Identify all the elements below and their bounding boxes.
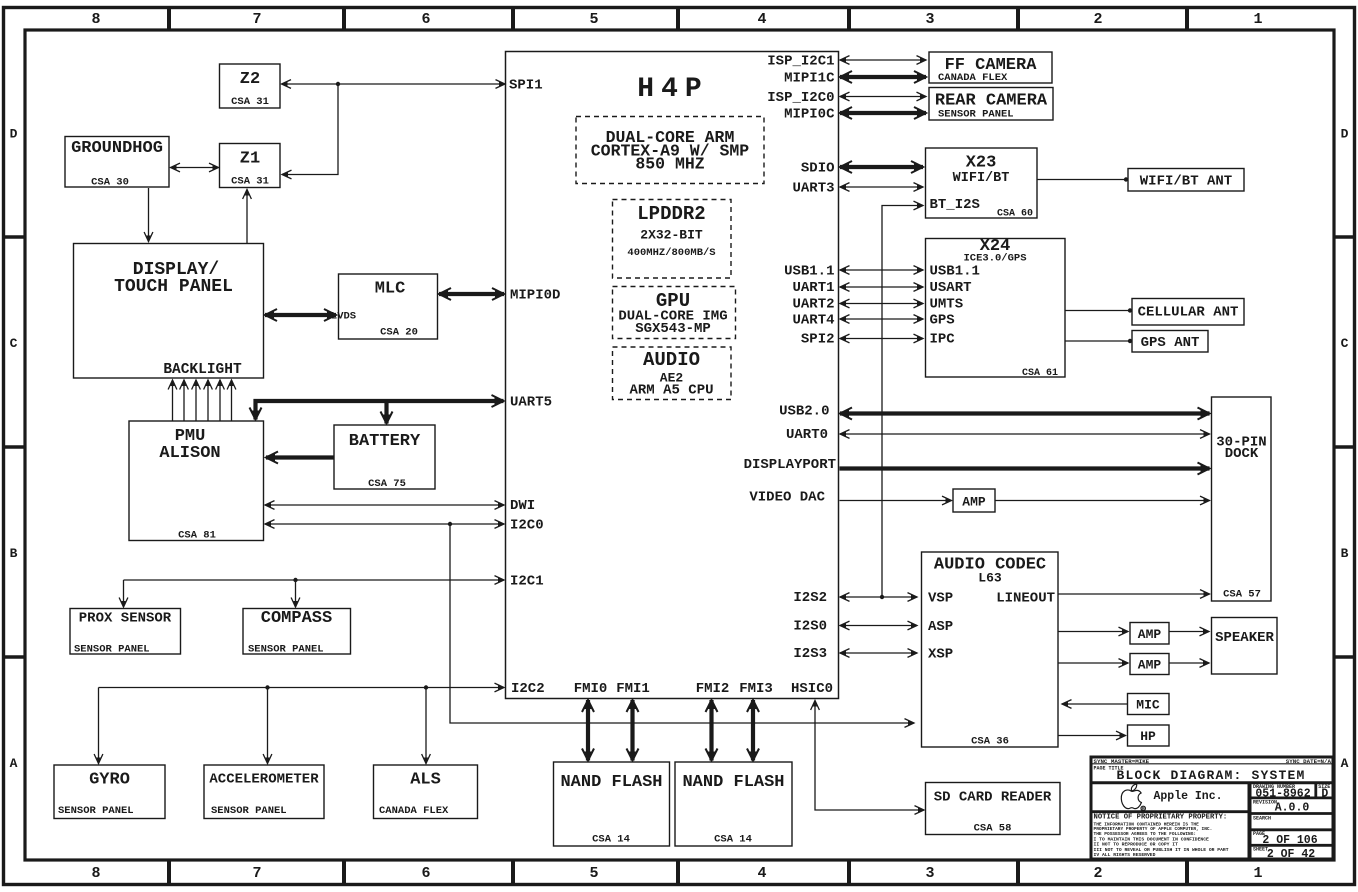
svg-text:Z2: Z2 bbox=[240, 70, 260, 89]
block GYRO bbox=[54, 765, 165, 819]
wire I2S2-VSP bbox=[840, 596, 917, 598]
svg-text:ACCELEROMETER: ACCELEROMETER bbox=[209, 772, 319, 788]
svg-text:DOCK: DOCK bbox=[1225, 446, 1259, 462]
block AMP video bbox=[953, 489, 995, 512]
title block page cell bbox=[1250, 844, 1335, 847]
block 30-PIN DOCK bbox=[1212, 397, 1272, 601]
wire X24 to GPS ANT bbox=[1066, 340, 1133, 342]
svg-text:A: A bbox=[1341, 756, 1349, 771]
svg-text:5: 5 bbox=[589, 865, 598, 882]
svg-text:1: 1 bbox=[1253, 865, 1262, 882]
svg-text:SEARCH: SEARCH bbox=[1253, 816, 1271, 822]
wire MIC to CODEC bbox=[1062, 703, 1127, 705]
svg-text:CSA 58: CSA 58 bbox=[974, 823, 1012, 835]
svg-text:GROUNDHOG: GROUNDHOG bbox=[71, 139, 163, 158]
svg-text:2: 2 bbox=[1093, 865, 1102, 882]
svg-text:USART: USART bbox=[930, 280, 972, 296]
svg-text:SPI2: SPI2 bbox=[801, 332, 835, 348]
wire ISP_I2C1 bbox=[840, 59, 926, 61]
wire UART4-GPS bbox=[840, 318, 923, 320]
svg-text:X23: X23 bbox=[966, 154, 997, 173]
wire DISPLAYPORT (thick) bbox=[840, 466, 1210, 470]
svg-text:FMI1: FMI1 bbox=[616, 681, 650, 697]
svg-text:CANADA FLEX: CANADA FLEX bbox=[379, 805, 449, 817]
block MLC bbox=[339, 274, 438, 339]
wire FMI1 (thick) bbox=[630, 700, 634, 761]
block COMPASS bbox=[243, 609, 351, 655]
wire X24 to CELLULAR ANT bbox=[1066, 310, 1133, 312]
svg-text:R: R bbox=[1142, 806, 1145, 812]
svg-text:CELLULAR ANT: CELLULAR ANT bbox=[1138, 305, 1239, 321]
wire AMP1 to SPEAKER bbox=[1170, 631, 1210, 633]
wire I2C0 branch to AUDIO CODEC bbox=[450, 524, 914, 723]
svg-text:UART1: UART1 bbox=[792, 280, 834, 296]
wire SPI1 to Z2 bbox=[282, 83, 506, 85]
wire BATTERY to PMU (thick) bbox=[266, 455, 334, 459]
wire UART5 (thick) bbox=[256, 401, 504, 420]
svg-text:ALS: ALS bbox=[410, 771, 441, 790]
wire UART5 branch to BATTERY (thick) bbox=[384, 401, 388, 424]
svg-text:C: C bbox=[1341, 336, 1349, 351]
wire GROUNDHOG to DISPLAY bbox=[148, 188, 150, 242]
svg-text:ISP_I2C0: ISP_I2C0 bbox=[767, 90, 834, 106]
svg-text:II NOT TO REPRODUCE OR COPY IT: II NOT TO REPRODUCE OR COPY IT bbox=[1094, 842, 1179, 848]
svg-text:COMPASS: COMPASS bbox=[261, 609, 332, 628]
svg-text:MIPI0D: MIPI0D bbox=[510, 288, 560, 304]
svg-text:I2S3: I2S3 bbox=[793, 646, 827, 662]
junction I2C1/COMPASS bbox=[293, 578, 297, 582]
svg-text:BLOCK DIAGRAM: SYSTEM: BLOCK DIAGRAM: SYSTEM bbox=[1116, 768, 1305, 783]
svg-text:MIPI1C: MIPI1C bbox=[784, 71, 835, 87]
svg-text:CSA 30: CSA 30 bbox=[91, 177, 129, 189]
block SD CARD READER bbox=[926, 783, 1061, 835]
svg-text:ASP: ASP bbox=[928, 619, 953, 635]
block NAND FLASH 2 bbox=[675, 762, 792, 846]
svg-text:L63: L63 bbox=[978, 571, 1002, 586]
svg-text:PROX SENSOR: PROX SENSOR bbox=[79, 611, 172, 627]
svg-text:CSA 36: CSA 36 bbox=[971, 736, 1009, 748]
block MIC bbox=[1128, 694, 1170, 715]
svg-text:UMTS: UMTS bbox=[930, 297, 964, 313]
svg-text:UART2: UART2 bbox=[792, 297, 834, 313]
block REAR CAMERA bbox=[929, 88, 1053, 121]
svg-text:SPEAKER: SPEAKER bbox=[1215, 630, 1274, 646]
wire DISPLAY to Z1 bbox=[246, 190, 248, 244]
wire LINEOUT to DOCK bbox=[1059, 593, 1210, 595]
block GROUNDHOG bbox=[65, 137, 169, 188]
svg-text:VIDEO DAC: VIDEO DAC bbox=[749, 490, 825, 506]
svg-text:7: 7 bbox=[252, 865, 261, 882]
wire GROUNDHOG-Z1 bbox=[171, 167, 219, 169]
svg-text:LINEOUT: LINEOUT bbox=[996, 591, 1055, 607]
svg-text:NAND FLASH: NAND FLASH bbox=[682, 773, 784, 792]
svg-text:AUDIO: AUDIO bbox=[643, 349, 700, 371]
block Z1 bbox=[220, 144, 281, 188]
border row tick marks bbox=[2, 235, 26, 238]
junction SPI1/Z1 bbox=[336, 82, 340, 86]
svg-text:ALISON: ALISON bbox=[159, 444, 220, 463]
junction WIFI/BT ANT bbox=[1124, 177, 1128, 181]
wire SDIO (thick) bbox=[840, 165, 923, 169]
svg-text:SYNC DATE=N/A: SYNC DATE=N/A bbox=[1286, 758, 1332, 765]
svg-text:3: 3 bbox=[925, 11, 934, 28]
wire DISPLAY-MLC LVDS (thick) bbox=[265, 313, 336, 317]
block AMP speaker 2 bbox=[1130, 654, 1169, 675]
svg-text:I2S0: I2S0 bbox=[793, 619, 827, 635]
svg-text:I2S2: I2S2 bbox=[793, 590, 827, 606]
svg-text:I2C2: I2C2 bbox=[511, 681, 545, 697]
wire USB1.1 bbox=[840, 269, 923, 271]
svg-text:IV ALL RIGHTS RESERVED: IV ALL RIGHTS RESERVED bbox=[1094, 852, 1156, 858]
wire AMP2 to SPEAKER bbox=[1170, 662, 1210, 664]
wire CODEC to AMP1 bbox=[1059, 631, 1129, 633]
svg-text:THE POSSESSOR AGREES TO THE FO: THE POSSESSOR AGREES TO THE FOLLOWING: bbox=[1094, 831, 1197, 837]
svg-text:I TO MAINTAIN THIS DOCUMENT IN: I TO MAINTAIN THIS DOCUMENT IN CONFIDENC… bbox=[1094, 837, 1210, 843]
svg-text:6: 6 bbox=[421, 865, 430, 882]
svg-text:WIFI/BT ANT: WIFI/BT ANT bbox=[1140, 174, 1232, 190]
svg-text:B: B bbox=[1341, 546, 1349, 561]
wire FMI3 (thick) bbox=[751, 700, 755, 761]
block X24 ICE3.0/GPS bbox=[926, 239, 1066, 378]
wire HSIC0 to SD CARD READER bbox=[815, 701, 924, 811]
svg-text:WIFI/BT: WIFI/BT bbox=[953, 171, 1010, 186]
wire UART1-USART bbox=[840, 286, 923, 288]
svg-text:2X32-BIT: 2X32-BIT bbox=[640, 228, 703, 243]
svg-text:CSA 57: CSA 57 bbox=[1223, 589, 1261, 601]
svg-text:C: C bbox=[10, 336, 18, 351]
svg-text:2 OF 106: 2 OF 106 bbox=[1262, 834, 1317, 847]
title block outer bbox=[1091, 757, 1333, 859]
svg-text:SENSOR PANEL: SENSOR PANEL bbox=[58, 805, 134, 817]
svg-text:SPI1: SPI1 bbox=[509, 78, 543, 94]
svg-text:GPS: GPS bbox=[930, 313, 955, 329]
svg-text:051-8962: 051-8962 bbox=[1255, 787, 1310, 800]
title block revision cell bbox=[1250, 812, 1335, 815]
title block notice divider bbox=[1091, 810, 1250, 813]
svg-text:SD CARD READER: SD CARD READER bbox=[934, 790, 1052, 806]
wire MIPI0C (thick) bbox=[840, 111, 926, 115]
svg-text:SHEET: SHEET bbox=[1253, 847, 1268, 853]
wire FMI0 (thick) bbox=[586, 700, 590, 761]
wire I2C1 bbox=[124, 579, 505, 581]
wire USB2.0 (thick) bbox=[840, 411, 1210, 415]
svg-text:GPS ANT: GPS ANT bbox=[1141, 335, 1200, 351]
block X23 WIFI/BT bbox=[926, 148, 1038, 218]
svg-text:LPDDR2: LPDDR2 bbox=[637, 203, 705, 225]
svg-text:I2C0: I2C0 bbox=[510, 518, 544, 534]
svg-text:UART3: UART3 bbox=[792, 181, 834, 197]
svg-text:TOUCH PANEL: TOUCH PANEL bbox=[114, 277, 233, 297]
apple logo bbox=[1121, 784, 1145, 811]
title block page title row bbox=[1091, 781, 1333, 784]
svg-text:SENSOR PANEL: SENSOR PANEL bbox=[74, 644, 150, 656]
svg-text:Z1: Z1 bbox=[240, 150, 260, 169]
block PMU ALISON bbox=[129, 421, 264, 541]
title block search cell bbox=[1250, 828, 1335, 831]
wire BT_I2S from I2S2 bbox=[882, 206, 923, 598]
block H4P SoC bbox=[506, 52, 839, 699]
wire CODEC to AMP2 bbox=[1059, 662, 1129, 664]
svg-text:5: 5 bbox=[589, 11, 598, 28]
junction I2C2/ALS bbox=[424, 685, 428, 689]
wire junction to Z1 bbox=[282, 84, 338, 175]
svg-text:SENSOR PANEL: SENSOR PANEL bbox=[211, 805, 287, 817]
block FF CAMERA bbox=[929, 52, 1052, 83]
svg-text:MIC: MIC bbox=[1136, 698, 1160, 713]
block ACCELEROMETER bbox=[204, 765, 324, 819]
svg-text:ISP_I2C1: ISP_I2C1 bbox=[767, 54, 834, 70]
svg-text:GYRO: GYRO bbox=[89, 771, 130, 790]
svg-text:2: 2 bbox=[1093, 11, 1102, 28]
wire I2C2 to ALS bbox=[425, 688, 427, 764]
title block sync row bbox=[1091, 763, 1333, 765]
svg-text:FMI0: FMI0 bbox=[574, 681, 608, 697]
block HP bbox=[1128, 725, 1170, 746]
svg-text:VSP: VSP bbox=[928, 591, 953, 607]
block Z2 bbox=[220, 64, 281, 108]
wire MIPI1C (thick) bbox=[840, 75, 926, 79]
wire I2C0 bbox=[265, 523, 504, 525]
svg-text:D: D bbox=[1321, 788, 1328, 801]
svg-text:UART4: UART4 bbox=[792, 313, 834, 329]
svg-text:A: A bbox=[10, 756, 18, 771]
svg-text:REVISION: REVISION bbox=[1253, 800, 1277, 806]
svg-text:I2C1: I2C1 bbox=[510, 574, 544, 590]
svg-text:CSA 20: CSA 20 bbox=[380, 327, 418, 339]
svg-text:SYNC MASTER=MIKE: SYNC MASTER=MIKE bbox=[1094, 758, 1150, 765]
svg-text:H4P: H4P bbox=[637, 74, 708, 105]
svg-text:CSA 81: CSA 81 bbox=[178, 530, 216, 542]
svg-text:CSA 31: CSA 31 bbox=[231, 176, 269, 188]
svg-text:UART0: UART0 bbox=[786, 427, 828, 443]
svg-text:UART5: UART5 bbox=[510, 395, 552, 411]
svg-text:AMP: AMP bbox=[1138, 627, 1162, 642]
block AMP speaker 1 bbox=[1130, 623, 1169, 645]
block AUDIO CODEC L63 bbox=[922, 552, 1059, 747]
svg-text:CSA 31: CSA 31 bbox=[231, 96, 269, 108]
svg-text:FMI3: FMI3 bbox=[739, 681, 773, 697]
svg-text:FMI2: FMI2 bbox=[696, 681, 730, 697]
svg-text:USB2.0: USB2.0 bbox=[779, 404, 829, 420]
svg-text:4: 4 bbox=[757, 11, 766, 28]
wire I2C2 to GYRO bbox=[98, 688, 100, 764]
wire UART2-UMTS bbox=[840, 303, 923, 305]
wire DWI bbox=[265, 504, 504, 506]
block AUDIO AE2 (dashed) bbox=[613, 347, 732, 400]
svg-text:D: D bbox=[10, 127, 18, 142]
svg-text:8: 8 bbox=[91, 11, 100, 28]
wire I2S3-XSP bbox=[840, 652, 917, 654]
svg-text:HP: HP bbox=[1140, 729, 1156, 744]
block LPDDR2 (dashed) bbox=[613, 200, 732, 279]
svg-text:CSA 14: CSA 14 bbox=[714, 834, 752, 846]
svg-text:XSP: XSP bbox=[928, 647, 953, 663]
svg-text:CSA 60: CSA 60 bbox=[997, 209, 1033, 220]
svg-text:SENSOR PANEL: SENSOR PANEL bbox=[248, 644, 324, 656]
wire SPI2-IPC bbox=[840, 338, 923, 340]
block SPEAKER bbox=[1212, 618, 1278, 675]
junction GPS ANT bbox=[1128, 339, 1132, 343]
svg-text:AMP: AMP bbox=[962, 495, 986, 510]
block WIFI/BT ANT bbox=[1128, 169, 1244, 192]
block GPU (dashed) bbox=[613, 287, 736, 339]
svg-text:BACKLIGHT: BACKLIGHT bbox=[163, 362, 242, 378]
wire FMI2 (thick) bbox=[709, 700, 713, 761]
svg-text:CSA 61: CSA 61 bbox=[1022, 368, 1058, 379]
svg-text:DWI: DWI bbox=[510, 498, 535, 514]
junction I2S2/BT_I2S bbox=[880, 595, 884, 599]
junction CELLULAR ANT bbox=[1128, 308, 1132, 312]
svg-text:MIPI0C: MIPI0C bbox=[784, 107, 835, 123]
svg-text:USB1.1: USB1.1 bbox=[784, 264, 834, 280]
block ALS bbox=[374, 765, 478, 819]
svg-text:3: 3 bbox=[925, 865, 934, 882]
wire I2S0-ASP bbox=[840, 625, 917, 627]
block PROX SENSOR bbox=[70, 609, 181, 655]
svg-text:AMP: AMP bbox=[1138, 658, 1162, 673]
block DISPLAY/TOUCH PANEL bbox=[74, 244, 264, 379]
svg-text:SDIO: SDIO bbox=[801, 161, 835, 177]
svg-text:NOTICE OF PROPRIETARY PROPERTY: NOTICE OF PROPRIETARY PROPERTY: bbox=[1094, 813, 1228, 821]
block CELLULAR ANT bbox=[1132, 299, 1244, 326]
svg-text:CSA 14: CSA 14 bbox=[592, 834, 630, 846]
svg-text:4: 4 bbox=[757, 865, 766, 882]
svg-text:IPC: IPC bbox=[930, 332, 956, 348]
svg-text:III NOT TO REVEAL OR PUBLISH I: III NOT TO REVEAL OR PUBLISH IT IN WHOLE… bbox=[1094, 847, 1229, 853]
svg-text:B: B bbox=[10, 546, 18, 561]
svg-text:400MHZ/800MB/S: 400MHZ/800MB/S bbox=[627, 247, 715, 259]
wire I2C2 bbox=[99, 687, 505, 689]
wire UART3 bbox=[840, 186, 923, 188]
svg-text:ARM A5 CPU: ARM A5 CPU bbox=[629, 383, 713, 399]
wire ISP_I2C0 bbox=[840, 96, 926, 98]
block NAND FLASH 1 bbox=[554, 762, 670, 846]
svg-text:8: 8 bbox=[91, 865, 100, 882]
block GPS ANT bbox=[1132, 331, 1208, 353]
svg-text:USB1.1: USB1.1 bbox=[930, 264, 980, 280]
title block column divider bbox=[1248, 783, 1252, 859]
svg-text:A.0.0: A.0.0 bbox=[1275, 802, 1310, 815]
svg-text:NAND FLASH: NAND FLASH bbox=[560, 773, 662, 792]
svg-text:SGX543-MP: SGX543-MP bbox=[635, 321, 711, 337]
wire CODEC to HP bbox=[1059, 735, 1126, 737]
wire MLC-MIPI0D (thick) bbox=[439, 292, 504, 296]
svg-text:1: 1 bbox=[1253, 11, 1262, 28]
wire AMP to DOCK bbox=[996, 500, 1210, 502]
block CPU dual-core ARM (dashed) bbox=[576, 117, 764, 184]
svg-text:DISPLAYPORT: DISPLAYPORT bbox=[744, 457, 836, 473]
svg-text:CSA 75: CSA 75 bbox=[368, 478, 406, 490]
wire backlight arrows bbox=[172, 380, 174, 421]
wire I2C2 to ACCELEROMETER bbox=[267, 688, 269, 764]
junction I2C2/ACCELEROMETER bbox=[265, 685, 269, 689]
svg-text:850 MHZ: 850 MHZ bbox=[635, 155, 704, 174]
svg-text:7: 7 bbox=[252, 11, 261, 28]
svg-text:2 OF 42: 2 OF 42 bbox=[1267, 848, 1315, 861]
border column tick marks bbox=[167, 6, 171, 31]
svg-text:MLC: MLC bbox=[375, 280, 406, 299]
svg-text:BT_I2S: BT_I2S bbox=[930, 197, 980, 213]
wire I2C1 to COMPASS bbox=[295, 580, 297, 607]
wire I2C1 to PROX SENSOR bbox=[123, 580, 125, 607]
junction I2C0 branch bbox=[448, 522, 452, 526]
svg-text:SENSOR PANEL: SENSOR PANEL bbox=[938, 109, 1014, 121]
svg-text:BATTERY: BATTERY bbox=[349, 432, 421, 451]
svg-text:HSIC0: HSIC0 bbox=[791, 681, 833, 697]
svg-text:6: 6 bbox=[421, 11, 430, 28]
block BATTERY bbox=[334, 425, 435, 489]
svg-text:CANADA FLEX: CANADA FLEX bbox=[938, 72, 1008, 84]
wire UART0 bbox=[840, 433, 1210, 435]
wire VIDEO DAC to AMP bbox=[840, 500, 952, 502]
svg-text:D: D bbox=[1341, 127, 1349, 142]
title block drawing number cell bbox=[1250, 797, 1335, 800]
wire X23 to WIFI/BT ANT bbox=[1038, 179, 1129, 181]
svg-text:Apple Inc.: Apple Inc. bbox=[1153, 790, 1222, 803]
